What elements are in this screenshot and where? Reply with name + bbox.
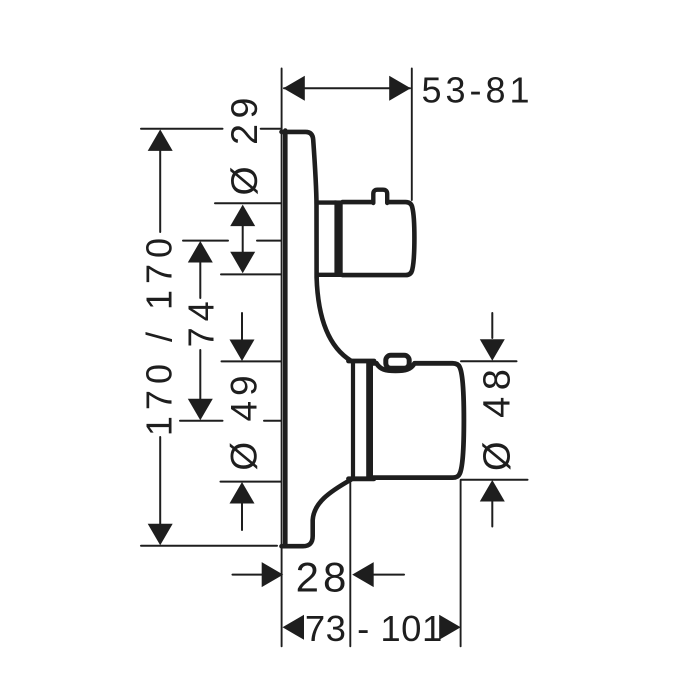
arrowhead O29 bottom: [230, 252, 255, 274]
arrowhead 73-101 left: [283, 615, 305, 640]
upper knob body: [343, 202, 415, 275]
svg-text:53-81: 53-81: [422, 70, 534, 111]
lower sleeve bottom edge: [349, 476, 375, 481]
svg-text:170 / 170: 170 / 170: [139, 232, 180, 436]
lower knob clip: [386, 355, 409, 368]
dimension O29 line: [242, 222, 244, 255]
upper knob top tab: [373, 190, 387, 203]
arrowhead O48 lower: [480, 480, 505, 502]
dimension O48 tail upper: [491, 313, 493, 338]
dimension 28 tail left: [233, 574, 263, 576]
tick top plate: [141, 128, 282, 130]
arrowhead 74 top: [188, 241, 213, 263]
arrowhead O48 upper: [480, 339, 505, 361]
tick upper knob bottom: [221, 273, 282, 275]
tick right knob top: [461, 360, 517, 362]
dimension 170/170 line upper: [159, 148, 161, 232]
tick lower knob center: [180, 420, 282, 422]
tick plate bottom: [141, 545, 277, 547]
tick lower knob top: [222, 360, 282, 362]
extension line right of upper knob: [411, 69, 413, 201]
upper knob base bar: [334, 200, 342, 277]
svg-text:73 - 101: 73 - 101: [305, 608, 443, 649]
svg-text:28: 28: [296, 554, 351, 601]
lower knob base bar: [366, 361, 373, 478]
svg-text:Ø 29: Ø 29: [223, 92, 265, 195]
arrowhead 28 right: [352, 562, 374, 587]
dimension 53-81 line: [284, 87, 410, 89]
tick lower knob bottom: [221, 481, 282, 483]
lower sleeve front line: [351, 361, 355, 479]
dimension 49 tail upper: [241, 313, 243, 342]
tick upper knob center: [183, 240, 282, 242]
escutcheon plate top and front profile: [282, 132, 352, 361]
wall line: [281, 69, 283, 647]
svg-text:74: 74: [180, 295, 221, 347]
lower sleeve top edge: [349, 359, 375, 364]
svg-text:Ø 48: Ø 48: [476, 363, 518, 471]
extension line below sleeve: [349, 482, 351, 646]
escutcheon plate lower flare and bottom: [282, 480, 352, 547]
dimension 49 tail lower: [241, 501, 243, 530]
tick right knob bottom: [461, 479, 528, 481]
arrowhead 28 left: [262, 562, 284, 587]
dimension 28 tail right: [374, 574, 405, 576]
arrowhead 73-101 right: [439, 615, 461, 640]
escutcheon plate left edge: [283, 131, 288, 547]
arrowhead 170/170 bottom: [148, 524, 173, 546]
arrowhead 49 upper: [230, 340, 255, 362]
dimension 74 line lower: [199, 350, 201, 401]
upper knob neck top edge: [317, 200, 336, 204]
dimension O48 tail lower: [491, 500, 493, 527]
extension line below lower knob: [460, 480, 462, 646]
svg-text:Ø 49: Ø 49: [223, 370, 264, 470]
dimension 74 line upper: [199, 260, 201, 298]
arrowhead 53-81 right: [389, 76, 411, 101]
arrowhead 170/170 top: [148, 129, 173, 151]
arrowhead 53-81 left: [283, 76, 305, 101]
tick upper knob top: [215, 202, 282, 204]
arrowhead 74 bottom: [188, 399, 213, 421]
dimension 170/170 line lower: [159, 437, 161, 526]
upper knob neck bottom edge: [317, 273, 336, 277]
lower knob body: [373, 363, 464, 477]
arrowhead O29 top: [230, 205, 255, 227]
arrowhead 49 lower: [230, 482, 255, 504]
